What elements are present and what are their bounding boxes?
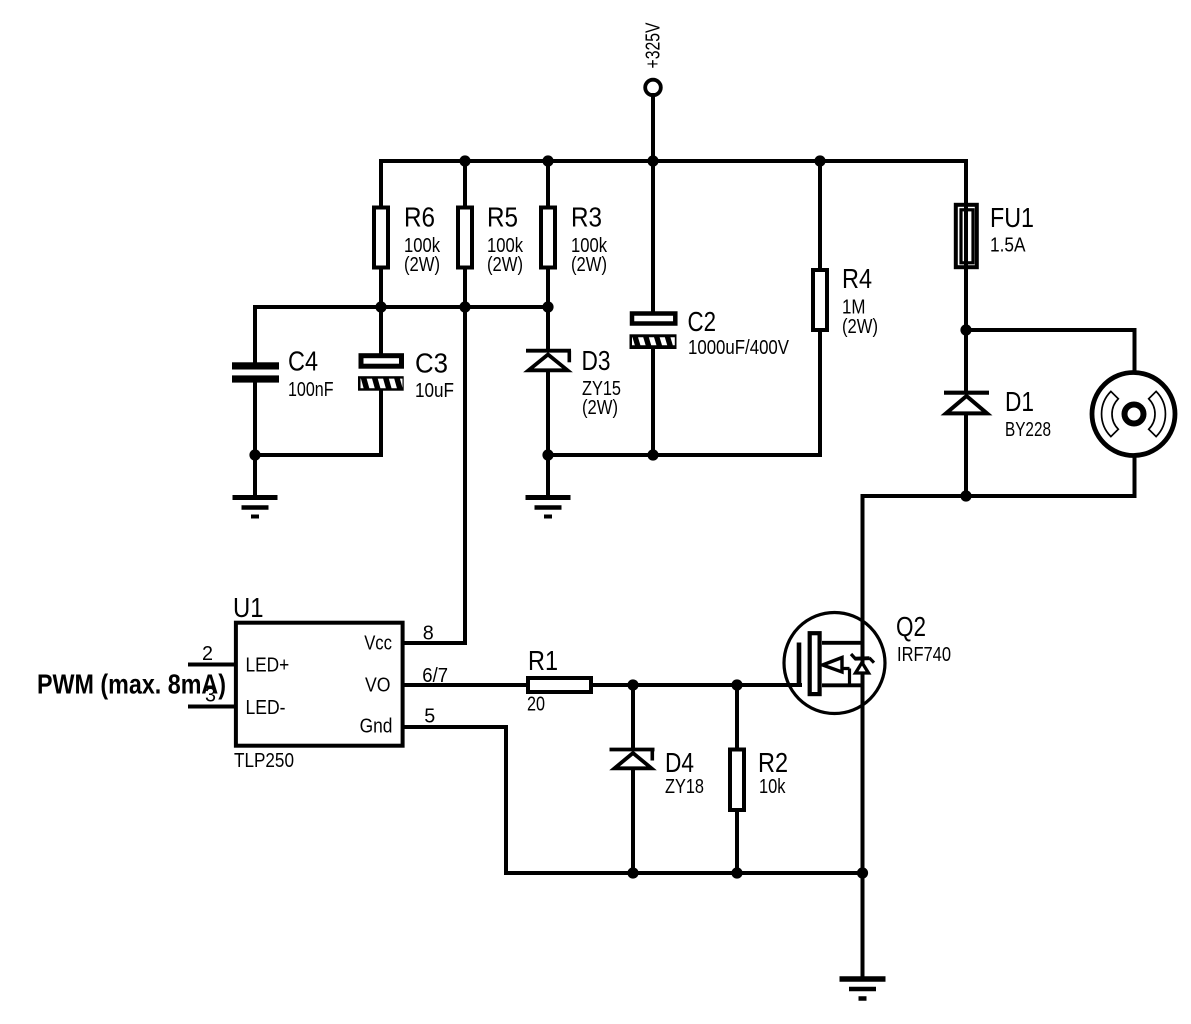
svg-text:10k: 10k: [759, 776, 786, 798]
body diode bar: [851, 654, 856, 660]
svg-text:VO: VO: [365, 675, 391, 697]
resistor R5: [458, 202, 524, 277]
svg-text:(2W): (2W): [842, 316, 878, 338]
wire U1 pin3: [190, 705, 236, 709]
diode D1: [944, 386, 1051, 441]
svg-text:R3: R3: [571, 202, 602, 233]
svg-text:FU1: FU1: [990, 202, 1034, 233]
wire Gnd pin 5: [403, 727, 863, 873]
drain stub: [822, 641, 861, 645]
wire U1 pin2: [190, 663, 236, 667]
wire VO pin to R1: [403, 683, 527, 687]
junction gate rail at D4: [627, 679, 638, 690]
node +325V terminal: [645, 80, 661, 96]
wire R2 top: [735, 685, 739, 748]
wire Q2 drain-source column: [861, 496, 865, 975]
capacitor C2: [630, 306, 790, 359]
body diode triangle: [856, 663, 869, 674]
zener diode D3: [526, 345, 621, 419]
transistor Q2 MOSFET IRF740: [784, 611, 951, 714]
junction top bus at R4: [814, 155, 825, 166]
svg-text:(2W): (2W): [404, 254, 440, 276]
wire R4 bottom: [818, 330, 822, 455]
svg-text:1.5A: 1.5A: [990, 235, 1026, 257]
svg-text:R2: R2: [758, 747, 788, 778]
wire R3 top: [546, 161, 550, 206]
svg-text:BY228: BY228: [1005, 419, 1051, 441]
svg-text:Vcc: Vcc: [364, 633, 392, 655]
wire C2 bottom: [651, 347, 655, 455]
source stub: [822, 683, 863, 687]
wire C4 top: [253, 307, 257, 363]
junction mid rail at D3: [542, 301, 553, 312]
wire lamp bottom return: [863, 456, 1135, 496]
wire C2 top: [651, 161, 655, 313]
resistor R3: [541, 202, 608, 277]
ground below Q2 source: [840, 979, 886, 999]
svg-text:TLP250: TLP250: [234, 750, 294, 772]
svg-text:C4: C4: [288, 346, 318, 377]
wire R3 bottom: [546, 267, 550, 307]
wire mid rail y307: [255, 305, 548, 309]
wire +325V stub: [651, 95, 655, 161]
svg-text:20: 20: [527, 694, 545, 716]
svg-text:1000uF/400V: 1000uF/400V: [688, 337, 790, 359]
wire Vcc pin 8: [403, 641, 465, 645]
svg-text:R1: R1: [528, 645, 558, 676]
junction D3 bottom: [542, 449, 553, 460]
svg-text:R4: R4: [842, 263, 872, 294]
junction bottom rail at D4: [627, 867, 638, 878]
svg-text:2: 2: [202, 643, 213, 665]
resistor R1: [527, 645, 591, 716]
wire D4 top: [631, 685, 635, 748]
wire R6 top: [379, 161, 383, 206]
svg-text:6/7: 6/7: [422, 665, 448, 687]
svg-text:PWM (max. 8mA): PWM (max. 8mA): [37, 669, 226, 700]
svg-text:IRF740: IRF740: [897, 644, 951, 666]
wire R5 column to Vcc: [463, 161, 467, 643]
junction bottom rail at R2: [731, 867, 742, 878]
wire D1 bottom: [964, 413, 968, 496]
junction top bus at R3: [542, 155, 553, 166]
gate electrode: [797, 643, 802, 687]
capacitor C3: [358, 348, 454, 403]
wire R6 bottom: [379, 267, 383, 307]
svg-text:(2W): (2W): [487, 254, 523, 276]
junction mid rail at C3: [375, 301, 386, 312]
svg-text:LED-: LED-: [246, 697, 286, 719]
fuse FU1: [956, 202, 1034, 267]
svg-text:8: 8: [423, 623, 434, 645]
svg-text:+325V: +325V: [643, 22, 665, 69]
junction top bus at R5: [459, 155, 470, 166]
wire bottom mid rail y455: [548, 453, 820, 457]
ground below D3: [526, 498, 571, 517]
wire D1 top: [964, 330, 968, 391]
svg-text:(2W): (2W): [582, 397, 618, 419]
svg-text:C2: C2: [688, 306, 717, 337]
resistor R4: [813, 263, 878, 338]
resistor R2: [730, 747, 788, 810]
junction bottom rail at source: [857, 867, 868, 878]
zener diode D4: [610, 747, 705, 798]
svg-text:D3: D3: [582, 345, 611, 376]
svg-text:R6: R6: [404, 202, 435, 233]
junction mid rail at R5: [459, 301, 470, 312]
svg-text:D1: D1: [1005, 386, 1034, 417]
wire C3 top: [379, 307, 383, 356]
svg-text:ZY18: ZY18: [665, 776, 704, 798]
wire D3 top: [546, 307, 550, 350]
wire top bus: [381, 159, 966, 163]
svg-text:(2W): (2W): [571, 254, 607, 276]
wire C3 bottom: [255, 391, 381, 455]
wire R2 bottom: [735, 812, 739, 873]
op-amp U1 box (optocoupler TLP250): [202, 592, 448, 772]
wire D4 bottom: [631, 769, 635, 873]
wire R1 to gate: [592, 683, 800, 687]
resistor R6: [374, 202, 441, 277]
junction gate rail at R2: [731, 679, 742, 690]
svg-text:10uF: 10uF: [415, 380, 454, 402]
junction top bus at +325V: [647, 155, 658, 166]
junction C2 bottom: [647, 449, 658, 460]
svg-text:100nF: 100nF: [288, 379, 334, 401]
svg-text:U1: U1: [233, 592, 264, 623]
wire C4 bottom: [253, 382, 257, 495]
svg-text:Q2: Q2: [896, 611, 926, 642]
wire fuse drop through fuse: [964, 161, 968, 330]
svg-text:5: 5: [424, 705, 435, 727]
junction D1 anode: [960, 490, 971, 501]
channel bar: [810, 633, 820, 694]
svg-text:LED+: LED+: [246, 654, 290, 676]
svg-text:R5: R5: [487, 202, 518, 233]
wire lamp top feed: [966, 330, 1135, 373]
svg-text:D4: D4: [665, 747, 694, 778]
junction C4 bottom: [249, 449, 260, 460]
body arrow: [823, 658, 843, 673]
svg-text:C3: C3: [415, 348, 448, 379]
junction fuse bottom: [960, 324, 971, 335]
lamp: [1092, 373, 1175, 456]
capacitor C4: [232, 346, 334, 402]
wire D3 bottom to ground: [546, 371, 550, 495]
wire R4 top: [818, 161, 822, 268]
ground below C4: [233, 498, 278, 517]
svg-text:Gnd: Gnd: [360, 716, 393, 738]
